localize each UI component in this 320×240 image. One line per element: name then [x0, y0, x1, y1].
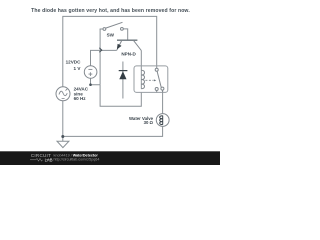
svg-text:SW: SW: [107, 32, 115, 37]
svg-text:30 Ω: 30 Ω: [144, 120, 154, 125]
svg-text:The diode has gotten very hot,: The diode has gotten very hot, and has b…: [31, 8, 190, 14]
svg-text:1 V: 1 V: [73, 66, 81, 71]
svg-text:60 Hz: 60 Hz: [74, 96, 87, 101]
svg-text:NPN-D: NPN-D: [121, 52, 136, 57]
svg-text:LAB: LAB: [45, 158, 53, 163]
svg-text:12VDC: 12VDC: [66, 60, 81, 65]
svg-text:http://circuitlab.com/c/5pq64: http://circuitlab.com/c/5pq64: [54, 158, 100, 162]
